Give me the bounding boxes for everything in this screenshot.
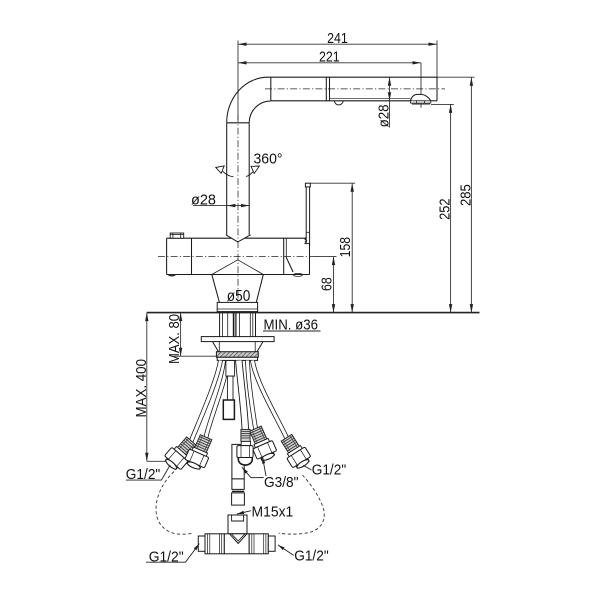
svg-text:241: 241 bbox=[327, 30, 348, 47]
svg-text:G1/2": G1/2" bbox=[294, 548, 329, 565]
svg-text:ø28: ø28 bbox=[191, 191, 216, 208]
svg-text:221: 221 bbox=[319, 49, 340, 66]
svg-text:285: 285 bbox=[458, 184, 475, 206]
svg-text:ø50: ø50 bbox=[227, 288, 251, 305]
svg-text:M15x1: M15x1 bbox=[252, 503, 294, 520]
svg-text:G3/8": G3/8" bbox=[264, 474, 299, 491]
svg-text:68: 68 bbox=[318, 277, 335, 291]
svg-text:G1/2": G1/2" bbox=[312, 462, 347, 479]
svg-text:360°: 360° bbox=[254, 150, 283, 167]
svg-text:G1/2": G1/2" bbox=[149, 548, 184, 565]
svg-text:MAX. 400: MAX. 400 bbox=[133, 359, 150, 418]
svg-text:MAX. 80: MAX. 80 bbox=[166, 314, 183, 364]
svg-text:158: 158 bbox=[337, 237, 354, 257]
svg-text:252: 252 bbox=[436, 199, 453, 220]
svg-text:ø28: ø28 bbox=[375, 104, 392, 127]
